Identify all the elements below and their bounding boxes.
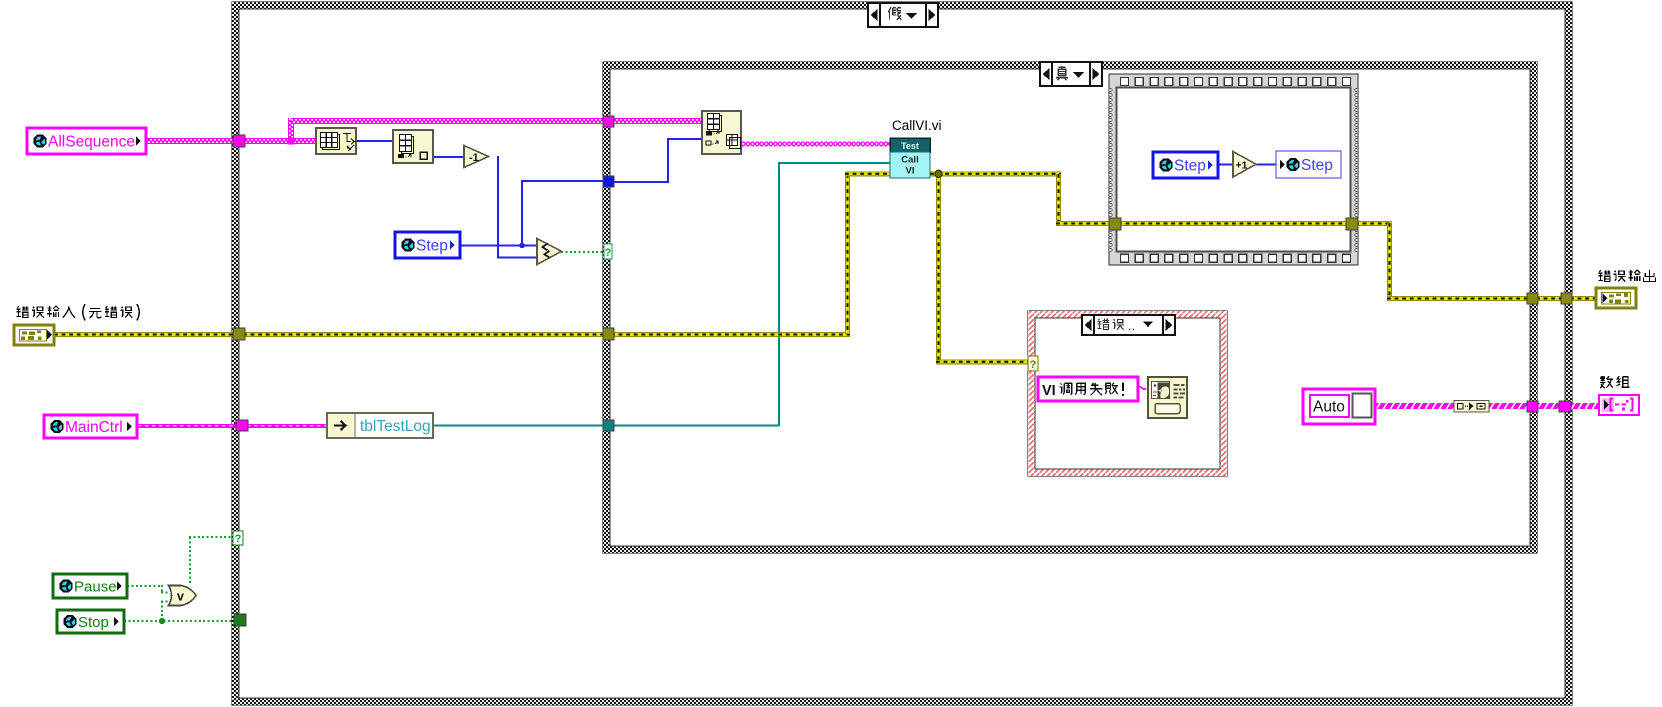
svg-text:+1: +1: [1236, 160, 1248, 172]
svg-text:Test: Test: [901, 141, 919, 151]
svg-text:Stop: Stop: [78, 614, 109, 631]
svg-text:?: ?: [1030, 359, 1037, 371]
svg-text:Step: Step: [1301, 157, 1333, 174]
svg-text:?: ?: [605, 247, 612, 259]
svg-text:VI: VI: [906, 166, 915, 177]
svg-text:?: ?: [235, 533, 242, 545]
svg-text:..: ..: [1128, 318, 1135, 333]
svg-text:tblTestLog: tblTestLog: [360, 418, 431, 435]
svg-text:-1: -1: [469, 152, 479, 164]
svg-text:Step: Step: [416, 238, 448, 255]
svg-text:Auto: Auto: [1313, 399, 1345, 416]
svg-text:Pause: Pause: [74, 578, 117, 595]
svg-text:v: v: [177, 590, 184, 604]
svg-text:CallVI.vi: CallVI.vi: [892, 118, 942, 133]
svg-text:Call: Call: [901, 155, 918, 166]
svg-text:Step: Step: [1174, 158, 1206, 175]
svg-text:MainCtrl: MainCtrl: [65, 419, 123, 436]
svg-text:VI: VI: [1042, 383, 1056, 399]
svg-text:AllSequence: AllSequence: [48, 134, 135, 151]
